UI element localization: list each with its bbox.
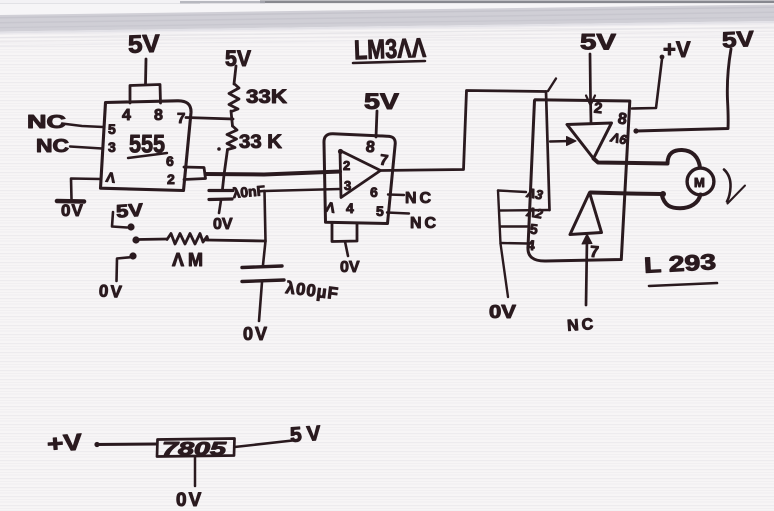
0V label (7805): [176, 490, 203, 511]
svg-text:33K: 33K: [246, 87, 287, 108]
svg-text:2: 2: [593, 100, 603, 118]
svg-text:0V: 0V: [340, 259, 360, 276]
wire U-link pins 4 and 8: [130, 85, 161, 104]
bracket joining pins 13,12,5,4: [498, 191, 501, 244]
motor M: [687, 168, 714, 195]
svg-text:5: 5: [108, 121, 116, 137]
svg-text:0V: 0V: [243, 324, 269, 344]
svg-text:8: 8: [154, 107, 163, 124]
wire end blob: [633, 128, 638, 133]
pin 12 stub to input line: [500, 209, 550, 212]
svg-text:0V: 0V: [176, 490, 203, 511]
pin 13 label: [525, 185, 545, 203]
svg-text:Λ2: Λ2: [525, 204, 545, 222]
switch 0V contact dot: [129, 252, 136, 259]
L293 title label: [643, 249, 716, 278]
svg-text:NC: NC: [36, 136, 69, 156]
svg-text:5V: 5V: [721, 26, 755, 53]
wire 5V down to buffer input: [590, 54, 591, 122]
5V supply label (555): [128, 30, 161, 59]
+V dot: [660, 55, 665, 60]
555 label: [129, 131, 165, 159]
7805 label: [162, 439, 228, 459]
pin 1: [105, 169, 117, 186]
wire output pin7 to L293: [381, 91, 547, 171]
svg-text:5V: 5V: [225, 46, 251, 71]
wire buffer1 output to motor (top): [594, 150, 701, 169]
svg-text:4: 4: [122, 107, 131, 124]
pin 7 label: [379, 152, 390, 170]
wire NC to pin5: [62, 124, 103, 128]
0V label (switch): [98, 281, 124, 301]
pin 8 label (L293): [617, 110, 628, 128]
svg-text:2: 2: [167, 171, 175, 187]
svg-text:5V: 5V: [289, 422, 326, 447]
wire 5V stem to 555 pins 4,8: [144, 59, 147, 84]
op-amp U2 LM311 body: [324, 134, 395, 224]
wire buffer2 output to motor (bottom): [591, 193, 701, 209]
wire 5V to R 33K top: [234, 66, 236, 84]
capacitor C 100uF top plate: [242, 266, 282, 268]
svg-text:4: 4: [346, 200, 354, 216]
wire pin6 to NC: [388, 193, 404, 196]
svg-text:ΛM: ΛM: [172, 250, 207, 270]
wire 555 pin7 to divider: [186, 118, 233, 120]
resistor 33K (bottom): [227, 126, 237, 150]
wire NC to pin3: [70, 147, 102, 149]
svg-text:+V: +V: [663, 37, 691, 62]
pin 4: [122, 107, 131, 124]
buffer A2 triangle (up): [570, 193, 602, 235]
svg-text:NC: NC: [410, 215, 439, 232]
pin 4 label: [346, 200, 354, 216]
arrowhead into buffer 1: [567, 137, 577, 146]
triangle corner blob: [338, 149, 343, 154]
switch common dot: [132, 236, 139, 243]
svg-text:33 K: 33 K: [239, 132, 282, 153]
wire 10nF to 0V: [219, 200, 221, 213]
svg-text:2: 2: [343, 158, 350, 173]
pin 5 stub: [501, 225, 527, 227]
wire NC up into buffer 2: [586, 239, 587, 305]
svg-text:3: 3: [344, 178, 351, 193]
5V supply label (33K divider): [225, 46, 251, 71]
wire between resistors / pin7 node: [231, 111, 233, 126]
motor M letter: [694, 175, 705, 190]
pin 1 label: [324, 198, 337, 215]
wire pin6/2 node to comparator pin2: [206, 172, 341, 175]
pin 5 label: [376, 203, 384, 219]
node NC (pin 6): [405, 190, 434, 207]
wire 7805 to 5V: [235, 440, 298, 447]
svg-text:5: 5: [376, 203, 384, 219]
pin 5: [108, 121, 116, 137]
svg-text:5V: 5V: [580, 30, 616, 55]
ground bar: [57, 199, 84, 204]
tick mark node 1: [548, 79, 556, 92]
resistor 1M: [167, 234, 208, 245]
wire tie to 0V: [345, 242, 348, 257]
buffer A1 triangle (down): [567, 123, 612, 159]
wire pin5 to NC: [387, 213, 409, 214]
pin 13 stub: [498, 191, 526, 193]
wire 100uF to 0V: [259, 282, 262, 321]
switch 5V contact elbow: [112, 212, 127, 228]
rotation arrow head stroke: [728, 186, 746, 204]
capacitor C 100uF bottom plate: [242, 280, 284, 282]
wire +V to 7805: [96, 443, 157, 446]
LM311 title label: [354, 33, 427, 65]
svg-text:6: 6: [370, 184, 378, 200]
IC U3 L293 body: [528, 100, 630, 261]
wire bracket to 0V: [501, 244, 509, 298]
resistor 33K (top): [229, 84, 239, 112]
arrowhead into buffer 2: [582, 234, 592, 244]
5V supply label (LM311): [364, 89, 399, 114]
svg-text:8: 8: [365, 139, 376, 157]
pin 8 label: [365, 139, 376, 157]
svg-text:+V: +V: [46, 428, 84, 456]
wire pins 1,4 tie below: [332, 224, 357, 242]
0V label (L293): [489, 302, 516, 322]
0V label (LM311): [340, 259, 360, 276]
10nF value label: [232, 182, 266, 201]
switch 5V contact dot: [127, 223, 134, 230]
wire +V to L293 pin8: [632, 59, 662, 109]
5V supply label (far right): [721, 26, 755, 53]
capacitor C 10nF top plate: [209, 189, 233, 192]
blob on bottom motor wire: [660, 191, 666, 197]
pin 6: [166, 153, 174, 169]
wire comparator pin3 branch: [265, 189, 341, 191]
wire node to 100uF: [263, 241, 266, 265]
pin 2: [167, 171, 175, 187]
pin 3: [108, 139, 116, 155]
junction dot left of R: [217, 147, 221, 151]
rotation arrow curve: [724, 170, 731, 202]
op-amp U2 triangle: [340, 151, 381, 198]
wire input1 inside L293: [546, 92, 550, 211]
wire branch to buffer 1 with arrowhead: [550, 140, 572, 143]
svg-text:λ0nF: λ0nF: [232, 182, 266, 201]
svg-text:5V: 5V: [364, 89, 399, 114]
node NC (pin 5): [410, 215, 439, 232]
svg-text:5V: 5V: [115, 200, 143, 222]
wire 1M to cap node: [206, 240, 265, 241]
node NC (pin 3): [36, 136, 69, 156]
0V label (100uF): [243, 324, 269, 344]
pin 7: [177, 110, 185, 127]
svg-text:M: M: [694, 175, 705, 190]
arrowhead on 5V wire: [586, 96, 595, 106]
pin 4 stub: [501, 242, 528, 245]
+V label (7805 input): [46, 428, 84, 456]
svg-text:7: 7: [589, 244, 599, 262]
wire divider bottom to node: [223, 150, 228, 190]
33K value label: [246, 87, 287, 108]
pin 8: [154, 107, 163, 124]
node NC (pin 5): [27, 112, 66, 132]
pin 6 label: [370, 184, 378, 200]
pin 2 label: [343, 158, 350, 173]
wire 7805 gnd to 0V: [194, 457, 197, 487]
svg-text:0V: 0V: [98, 281, 124, 301]
+V supply label: [663, 37, 691, 62]
L293 title underline: [649, 283, 717, 286]
switch 5V label: [115, 200, 143, 222]
wire 5V to pin8: [376, 111, 377, 137]
5V label (7805 output): [289, 422, 326, 447]
555 label underline: [128, 153, 167, 158]
svg-text:5V: 5V: [128, 30, 161, 59]
wire vertical to 1M node: [265, 191, 266, 241]
5V supply label (L293 pin2): [580, 30, 616, 55]
svg-text:L 293: L 293: [643, 249, 716, 278]
IC U1 555 timer body: [101, 101, 192, 191]
555 pins 6-2 tie stub: [184, 167, 206, 180]
pin 4 label: [526, 237, 536, 254]
svg-text:3: 3: [108, 139, 116, 155]
100uF value label: [285, 278, 340, 303]
pin 5 label: [529, 221, 539, 238]
svg-text:0V: 0V: [213, 216, 233, 233]
regulator U4 7805 body: [157, 439, 235, 457]
svg-text:0V: 0V: [61, 201, 84, 220]
pin 3 label: [344, 178, 351, 193]
pin 2 label (L293): [593, 100, 603, 118]
0V label (555 gnd): [61, 201, 84, 220]
pin 12 label: [525, 204, 545, 222]
wire pin1 to ground: [71, 179, 101, 200]
0V label (10nF): [213, 216, 233, 233]
wire start blob: [94, 442, 99, 447]
svg-text:0V: 0V: [489, 302, 516, 322]
LM311 title underline: [353, 61, 425, 63]
switch 0V contact elbow: [117, 257, 134, 281]
pin 16 label (L293): [609, 129, 629, 147]
svg-text:7: 7: [177, 110, 185, 127]
wire switch to resistor 1M: [137, 238, 167, 241]
svg-text:NC: NC: [405, 190, 434, 207]
node NC (L293 pin7): [567, 316, 597, 335]
pin 7 label (L293): [589, 244, 599, 262]
svg-text:NC: NC: [567, 316, 597, 335]
wire 5V right to L293 pin16: [636, 49, 731, 131]
svg-text:Λ3: Λ3: [525, 185, 545, 203]
svg-text:6: 6: [166, 153, 174, 169]
1M value label: [172, 250, 207, 270]
capacitor C 10nF bottom plate: [209, 197, 232, 201]
svg-text:NC: NC: [27, 112, 66, 132]
33K value label (bottom): [239, 132, 282, 153]
